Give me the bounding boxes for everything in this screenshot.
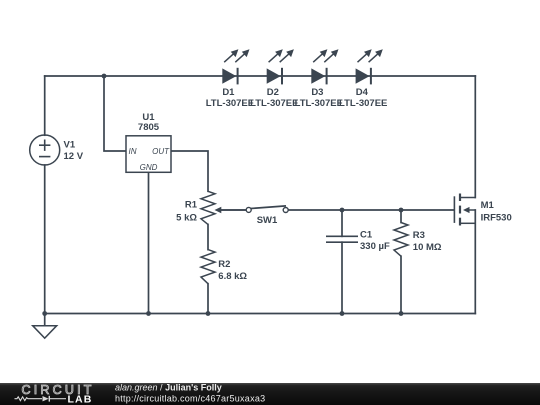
junction node C1 at rail <box>340 311 345 316</box>
svg-text:SW1: SW1 <box>257 215 278 226</box>
svg-text:5 kΩ: 5 kΩ <box>176 212 197 223</box>
svg-text:IRF530: IRF530 <box>481 213 512 224</box>
label R3 value <box>413 230 442 253</box>
wire: left vertical from top rail to V1 plus terminal <box>44 76 46 135</box>
wire: branch down from top rail to U1 IN <box>104 76 126 151</box>
junction node at ground rail / V1 <box>42 311 47 316</box>
svg-text:10 MΩ: 10 MΩ <box>413 242 442 253</box>
svg-text:LTL-307EE: LTL-307EE <box>295 98 343 109</box>
label R1 value <box>176 200 198 224</box>
junction node at top rail branch <box>102 74 107 79</box>
label U1 value <box>138 112 160 133</box>
wire: R3 bottom lead to ground rail <box>400 256 402 313</box>
labels LTL-307EE values <box>206 98 388 109</box>
junction node R3 top <box>399 208 404 213</box>
wire: U1 OUT to R1 top <box>171 151 208 191</box>
LED D1 <box>222 49 249 84</box>
label C1 value <box>360 230 390 252</box>
svg-text:alan.green / Julian's Folly: alan.green / Julian's Folly <box>115 383 222 393</box>
LED D4 <box>356 49 383 84</box>
svg-text:LTL-307EE: LTL-307EE <box>206 98 254 109</box>
wire: M1 source down to ground rail <box>474 210 476 314</box>
svg-text:D4: D4 <box>356 87 369 98</box>
label V1 value <box>64 140 84 162</box>
svg-text:D2: D2 <box>267 87 279 98</box>
wire: bottom ground rail <box>45 313 476 315</box>
capacitor C1 <box>326 236 358 242</box>
svg-text:330 µF: 330 µF <box>360 241 390 252</box>
CircuitLab logo wordmark <box>22 383 95 405</box>
wire: C1 top lead <box>341 210 343 236</box>
wire: V1 minus terminal down to ground rail <box>44 165 46 314</box>
svg-text:C1: C1 <box>360 230 373 241</box>
svg-text:R1: R1 <box>185 200 198 211</box>
switch SW1 <box>246 206 288 213</box>
svg-text:LAB: LAB <box>68 393 93 405</box>
junction node R2 at rail <box>206 311 211 316</box>
svg-text:http://circuitlab.com/c467ar5u: http://circuitlab.com/c467ar5uxaxa3 <box>115 394 265 404</box>
label M1 value <box>481 200 512 223</box>
svg-text:IN: IN <box>129 147 137 156</box>
label R2 value <box>218 259 247 282</box>
svg-text:R2: R2 <box>218 259 230 270</box>
wire: M1 drain up to top rail <box>474 76 476 198</box>
svg-text:R3: R3 <box>413 230 425 241</box>
svg-text:V1: V1 <box>64 140 76 151</box>
svg-text:M1: M1 <box>481 200 495 211</box>
R1 wiper arrow <box>215 207 247 214</box>
labels D1-D4 <box>222 87 368 98</box>
footer bar <box>0 383 540 405</box>
voltage source V1 <box>30 135 60 165</box>
wire: R2 bottom to ground rail <box>207 284 209 314</box>
svg-text:7805: 7805 <box>138 122 160 133</box>
svg-text:6.8 kΩ: 6.8 kΩ <box>218 271 247 282</box>
resistor R2 <box>201 250 215 284</box>
wire: C1 bottom lead to ground rail <box>341 242 343 313</box>
wire: top supply rail <box>45 75 476 77</box>
wire: U1 GND down to ground rail <box>148 172 150 313</box>
svg-text:GND: GND <box>140 163 158 172</box>
svg-text:LTL-307EE: LTL-307EE <box>250 98 298 109</box>
wire: R1 wiper to SW1 left terminal <box>220 209 246 211</box>
footer credit text <box>115 383 265 404</box>
wire: R1 bottom to R2 top <box>207 224 209 249</box>
wire: ground stub below rail <box>44 314 46 326</box>
junction node C1 top <box>340 208 345 213</box>
wire: SW1 right terminal to M1 gate <box>288 209 454 211</box>
LED D2 <box>267 49 294 84</box>
svg-text:D3: D3 <box>311 87 323 98</box>
svg-text:D1: D1 <box>222 87 235 98</box>
MOSFET M1 <box>454 194 475 226</box>
logo resistor-diode glyph <box>15 396 67 402</box>
potentiometer R1 <box>201 191 215 224</box>
label SW1 <box>257 215 278 226</box>
svg-text:12 V: 12 V <box>64 151 84 162</box>
svg-text:LTL-307EE: LTL-307EE <box>339 98 387 109</box>
junction node U1 GND at rail <box>146 311 151 316</box>
ground symbol <box>33 326 57 339</box>
junction node R3 at rail <box>399 311 404 316</box>
regulator U1 7805 <box>126 136 171 173</box>
svg-text:OUT: OUT <box>152 147 170 156</box>
LED D3 <box>311 49 338 84</box>
wire: R3 top lead <box>400 210 402 223</box>
resistor R3 <box>394 223 408 257</box>
